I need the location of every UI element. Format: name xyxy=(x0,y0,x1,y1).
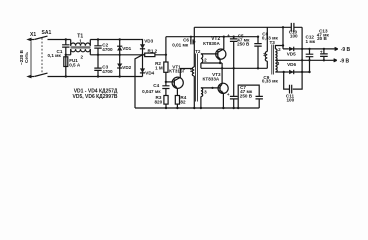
svg-text:3: 3 xyxy=(204,89,207,94)
wire mains top rail xyxy=(48,39,141,41)
svg-text:250 В: 250 В xyxy=(237,41,250,46)
node R4 bottom xyxy=(176,107,178,109)
node C2/C3 xyxy=(97,54,99,56)
node R3 bottom xyxy=(165,107,167,109)
capacitor C7 xyxy=(227,68,253,108)
svg-text:~220 В: ~220 В xyxy=(19,49,24,65)
node wire A to C10 xyxy=(282,26,284,28)
transistor VT2 xyxy=(203,36,226,63)
svg-text:820: 820 xyxy=(155,100,163,105)
node C8 top on H1 xyxy=(257,36,259,38)
svg-text:VD3: VD3 xyxy=(144,39,153,44)
svg-text:+: + xyxy=(227,33,230,38)
node VD5 cathode xyxy=(301,48,303,50)
node VD1/VD2 xyxy=(119,54,121,56)
node VD3/VD4 xyxy=(141,54,143,56)
node C13 top xyxy=(323,48,325,50)
node midpoint xyxy=(221,67,223,69)
svg-text:КТ833А: КТ833А xyxy=(203,76,220,81)
resistor R1 xyxy=(143,49,166,57)
svg-text:1: 1 xyxy=(263,52,266,57)
wire C9 loop xyxy=(238,85,259,108)
svg-text:VD6: VD6 xyxy=(287,62,296,67)
node C1 top xyxy=(65,38,67,40)
wire midpoint vertical xyxy=(221,63,223,84)
svg-text:4700: 4700 xyxy=(102,69,113,74)
node snubber C10 left xyxy=(282,44,284,46)
node C6 right on T2 column xyxy=(193,41,195,43)
capacitor C4 xyxy=(142,82,169,96)
resistor R3 xyxy=(155,95,169,108)
transformer T1 xyxy=(71,34,91,60)
capacitor C9 xyxy=(256,75,279,108)
svg-text:+: + xyxy=(320,50,323,55)
node C13 bottom xyxy=(323,59,325,61)
svg-text:20 В: 20 В xyxy=(317,36,327,41)
note diode types xyxy=(73,89,118,101)
capacitor C11 snubber xyxy=(284,72,302,103)
node T2 w1 bottom xyxy=(193,107,195,109)
transistor VT3 xyxy=(203,72,229,108)
node C2 top xyxy=(97,38,99,40)
node R1/V1 xyxy=(165,54,167,56)
svg-text:КТ830А: КТ830А xyxy=(203,41,220,46)
diode VD4 xyxy=(140,55,155,77)
svg-text:0,047 мк: 0,047 мк xyxy=(142,89,161,94)
svg-text:VD4: VD4 xyxy=(145,71,154,76)
svg-text:0,33 мк: 0,33 мк xyxy=(262,79,279,84)
svg-text:Сеть: Сеть xyxy=(24,52,29,63)
svg-text:+: + xyxy=(227,92,230,97)
svg-text:X1: X1 xyxy=(30,32,36,38)
svg-text:-9 В: -9 В xyxy=(341,47,351,53)
fuse FU1 xyxy=(64,55,81,77)
svg-text:0,1 мк: 0,1 мк xyxy=(48,53,62,58)
output -9V lower xyxy=(333,59,350,65)
wire +9V rail xyxy=(302,48,334,50)
node C5/C7 midpoint xyxy=(233,67,235,69)
wire A top rail of converter xyxy=(194,26,302,28)
svg-text:R1 2: R1 2 xyxy=(148,49,158,54)
svg-text:2: 2 xyxy=(278,47,281,52)
node VD2 bottom xyxy=(119,75,121,77)
node C6 left on H1 xyxy=(190,36,192,38)
node VT2 collector on H1 xyxy=(223,36,225,38)
node R2/C4/base xyxy=(165,81,167,83)
node VT3 emitter bottom xyxy=(222,107,224,109)
capacitor C10 snubber xyxy=(283,23,302,49)
plug X1 xyxy=(26,32,36,78)
svg-text:0,5 А: 0,5 А xyxy=(69,63,81,68)
svg-text:VD5, VD6 КД2997В: VD5, VD6 КД2997В xyxy=(73,94,118,100)
svg-text:82: 82 xyxy=(180,100,186,105)
svg-text:SA1: SA1 xyxy=(42,30,52,36)
svg-text:2: 2 xyxy=(204,58,207,63)
node C12 bottom xyxy=(308,59,310,61)
svg-text:Т3: Т3 xyxy=(270,40,276,45)
wire bottom rail center xyxy=(135,107,259,109)
wire VD6 out up to C12 column xyxy=(309,60,311,72)
output -9V upper xyxy=(334,47,351,53)
svg-text:Т2: Т2 xyxy=(195,49,201,54)
wire bridge output jog down xyxy=(135,55,143,108)
capacitor C2 xyxy=(94,40,113,55)
node C7 bottom xyxy=(233,107,235,109)
wire VD5 anode from T3 xyxy=(275,46,288,49)
wire mains rail2 xyxy=(66,54,143,56)
node C8 bottom xyxy=(257,67,259,69)
diode VD6 xyxy=(287,62,309,74)
capacitor C5 xyxy=(227,33,250,68)
capacitor C8 xyxy=(254,32,278,69)
node VD6 cathode xyxy=(301,71,303,73)
svg-text:1 мк: 1 мк xyxy=(306,39,316,44)
diode VD5 xyxy=(287,47,302,57)
node snubber C11 left xyxy=(283,71,285,73)
wire center tap rail xyxy=(275,59,333,61)
node C3 bottom xyxy=(97,75,99,77)
resistor R4 xyxy=(175,95,186,108)
node C1 bottom / FU1 top xyxy=(65,54,67,56)
wire H1 DC+ to VT2 collector xyxy=(166,36,258,38)
capacitor C13 xyxy=(317,29,330,61)
transformer T3 xyxy=(263,27,281,74)
label Сеть ~220 В xyxy=(19,49,29,65)
svg-text:КТ315Г: КТ315Г xyxy=(169,69,185,74)
node C5 top on H1 xyxy=(233,36,235,38)
node VT2 emitter junction xyxy=(219,62,221,64)
wire VD6 anode from T3 xyxy=(275,71,288,73)
transistor VT1 xyxy=(166,65,193,96)
wire V1 vertical from R1 to top xyxy=(165,37,167,62)
capacitor C1 xyxy=(48,40,70,59)
diode VD1 xyxy=(117,40,132,55)
diode VD3 xyxy=(140,39,154,55)
svg-text:VD1: VD1 xyxy=(122,46,131,51)
wire mains bottom rail xyxy=(48,76,143,78)
node VD1 top xyxy=(119,38,121,40)
svg-text:100: 100 xyxy=(287,98,295,103)
diode VD2 xyxy=(117,55,132,77)
capacitor C12 xyxy=(306,35,316,61)
wire midpoint horizontal xyxy=(201,67,267,69)
svg-text:VD5: VD5 xyxy=(287,52,296,57)
svg-text:0,01 мк: 0,01 мк xyxy=(172,42,189,47)
node T2 w3 bottom xyxy=(200,107,202,109)
svg-text:1: 1 xyxy=(79,39,82,44)
node VD6 out corner xyxy=(308,71,310,73)
svg-text:100: 100 xyxy=(290,33,298,38)
svg-text:C4: C4 xyxy=(153,83,159,88)
svg-text:3: 3 xyxy=(277,61,280,66)
node FU1 bottom xyxy=(65,75,67,77)
switch SA1 xyxy=(34,30,51,77)
capacitor C3 xyxy=(94,55,113,77)
node C9 loop bottom xyxy=(237,107,239,109)
svg-text:4700: 4700 xyxy=(102,47,113,52)
node crosslink on center rail xyxy=(301,59,303,61)
transformer T2 xyxy=(190,27,222,108)
node C12 top xyxy=(308,48,310,50)
svg-text:1: 1 xyxy=(190,68,193,73)
capacitor C6 xyxy=(172,37,194,48)
svg-text:2: 2 xyxy=(81,55,84,60)
wire secondary crosslink xyxy=(301,49,303,72)
svg-text:1 М: 1 М xyxy=(155,66,163,71)
resistor R2 xyxy=(155,61,168,82)
svg-text:250 В: 250 В xyxy=(240,94,253,99)
svg-text:VD2: VD2 xyxy=(122,65,131,70)
svg-text:-9 В: -9 В xyxy=(340,59,350,65)
